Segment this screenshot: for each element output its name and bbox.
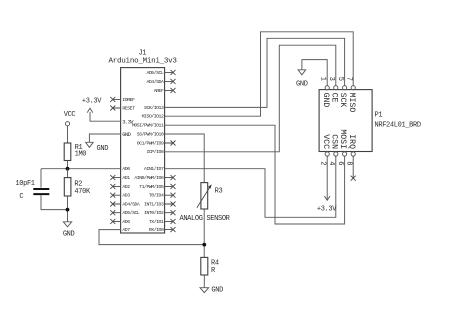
svg-text:T1/PWM/IO5: T1/PWM/IO5 [139,184,164,190]
svg-text:MOSI: MOSI [338,129,347,149]
svg-text:GND: GND [97,145,109,153]
svg-text:AD1: AD1 [122,175,130,181]
svg-text:C: C [19,193,23,201]
svg-text:VCC: VCC [64,111,76,119]
svg-text:AD2: AD2 [122,184,130,190]
svg-text:Arduino_Mini_3v3: Arduino_Mini_3v3 [109,58,178,66]
svg-text:GND: GND [321,93,330,108]
svg-text:VCC: VCC [321,134,330,149]
svg-text:AD4/SDA: AD4/SDA [122,201,140,207]
svg-text:470K: 470K [74,188,91,196]
svg-text:AIN0/PWM/IO6: AIN0/PWM/IO6 [134,175,164,181]
svg-text:ANALOG SENSOR: ANALOG SENSOR [179,215,230,223]
svg-text:J1: J1 [138,49,146,57]
svg-text:1: 1 [319,77,327,81]
svg-text:3: 3 [327,77,335,81]
svg-text:SS/PWM/IO10: SS/PWM/IO10 [137,131,164,137]
svg-text:TX/IO1: TX/IO1 [149,219,164,225]
svg-text:INT0/IO2: INT0/IO2 [144,210,164,216]
svg-text:AD5/SCL: AD5/SCL [122,210,140,216]
svg-text:1M0: 1M0 [75,150,87,158]
svg-text:R3: R3 [215,188,223,196]
svg-text:7: 7 [345,77,353,81]
svg-text:MOSI/PWM/IO11: MOSI/PWM/IO11 [132,123,164,129]
svg-text:ICP/IO8: ICP/IO8 [146,149,164,155]
svg-text:CSN: CSN [329,134,338,149]
svg-text:10pF1: 10pF1 [15,180,34,188]
svg-text:+3.3V: +3.3V [317,206,337,214]
svg-text:GND: GND [211,286,223,294]
svg-text:INT1/IO3: INT1/IO3 [144,201,164,207]
svg-text:4: 4 [327,161,335,165]
svg-text:6: 6 [336,161,344,165]
svg-text:MISO: MISO [347,93,356,113]
svg-text:AD7: AD7 [122,227,130,233]
svg-text:8: 8 [345,161,353,165]
svg-text:OC1/PWM/IO9: OC1/PWM/IO9 [137,140,164,146]
svg-text:NRF24L01_BRD: NRF24L01_BRD [375,122,421,130]
svg-text:AD6: AD6 [122,219,130,225]
svg-text:GND: GND [296,80,308,88]
svg-text:T0/IO4: T0/IO4 [149,193,164,199]
svg-text:AD3: AD3 [122,193,130,199]
svg-text:AIN1/IO7: AIN1/IO7 [144,166,164,172]
svg-text:AREF: AREF [154,88,164,94]
svg-text:IRQ: IRQ [347,134,356,149]
svg-text:GND: GND [63,231,75,239]
svg-text:RX/IO0: RX/IO0 [149,227,164,233]
svg-text:2: 2 [319,161,327,165]
svg-text:+3.3V: +3.3V [82,97,102,105]
svg-text:AD5/SCL: AD5/SCL [146,70,164,76]
svg-text:AD0: AD0 [122,166,130,172]
svg-text:RESET: RESET [122,105,135,111]
svg-text:CE: CE [329,93,338,103]
svg-text:P1: P1 [375,112,383,120]
svg-text:5: 5 [336,77,344,81]
svg-text:GND: GND [122,131,131,138]
svg-text:SCK: SCK [338,93,347,108]
svg-text:MISO/IO12: MISO/IO12 [142,114,164,120]
svg-text:IOREF: IOREF [122,97,135,103]
svg-text:SCK/IO13: SCK/IO13 [144,105,164,111]
svg-text:AD4/SDA: AD4/SDA [146,79,164,85]
